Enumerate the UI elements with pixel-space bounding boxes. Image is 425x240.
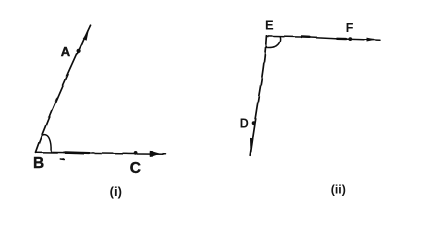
svg-text:C: C	[130, 160, 141, 177]
svg-text:E: E	[265, 18, 274, 33]
svg-text:B: B	[33, 155, 44, 172]
svg-text:(ii): (ii)	[331, 183, 346, 197]
svg-text:(i): (i)	[110, 184, 122, 199]
svg-text:F: F	[346, 21, 354, 35]
svg-text:A: A	[61, 44, 71, 59]
svg-text:D: D	[240, 116, 249, 130]
